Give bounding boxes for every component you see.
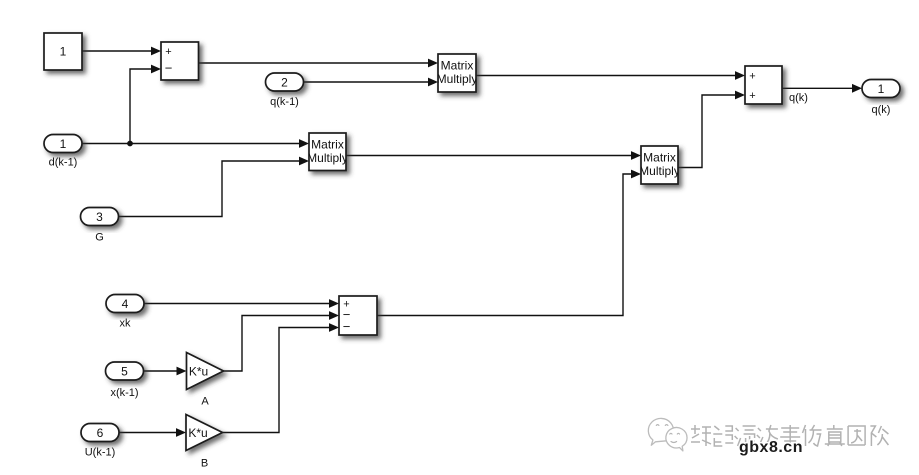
arrowhead into Sum2 in2 [735, 91, 745, 100]
arrowhead into MatrixMultiply2 in1 [299, 139, 309, 148]
arrowhead into MatrixMultiply1 in2 [428, 78, 438, 87]
wire In4 xk to Sum3 [144, 303, 330, 305]
svg-text:Multiply: Multiply [639, 164, 680, 178]
arrowhead into Sum3 in1 [329, 299, 339, 308]
svg-text:5: 5 [121, 364, 128, 378]
wire MatrixMultiply2 to MatrixMultiply3 [346, 155, 632, 157]
svg-text:−: − [165, 61, 173, 76]
watermark wechat logo [648, 418, 687, 450]
inport 1 d(k-1) [44, 135, 82, 169]
arrowhead into Sum3 in3 [329, 323, 339, 332]
svg-text:q(k): q(k) [789, 92, 808, 104]
wire branch d(k-1) to Sum1 minus [130, 69, 152, 144]
svg-text:+: + [165, 46, 171, 58]
wire Sum3 to MatrixMultiply3 [377, 174, 632, 316]
svg-text:K*u: K*u [189, 365, 208, 379]
arrowhead into Sum1 plus [151, 47, 161, 56]
svg-text:Multiply: Multiply [437, 72, 478, 86]
arrowhead into Gain A [177, 367, 187, 376]
svg-text:B: B [201, 458, 208, 470]
matrix multiply U2 [307, 133, 348, 171]
sum block Sum3 [339, 296, 377, 335]
arrowhead into MatrixMultiply3 in2 [631, 170, 641, 179]
inport 5 x(k-1) [106, 362, 144, 399]
inport 4 xk [106, 295, 144, 330]
svg-text:−: − [343, 319, 351, 334]
sum block Sum1 [161, 42, 199, 80]
svg-text:q(k): q(k) [872, 104, 891, 116]
inport 6 U(k-1) [81, 424, 119, 459]
constant block 1 [44, 33, 82, 70]
wire Gain A to Sum3 [224, 316, 331, 372]
sum block Sum2 [745, 66, 782, 104]
wire Constant1 to Sum1 [82, 50, 152, 52]
svg-text:G: G [95, 232, 104, 244]
gain B [186, 415, 223, 470]
inport 2 q(k-1) [266, 73, 304, 108]
svg-text:+: + [749, 71, 755, 83]
inport 3 G [81, 208, 119, 244]
svg-text:4: 4 [122, 297, 129, 311]
wire In1 d(k-1) to MatrixMultiply2 [82, 143, 300, 145]
gain A [187, 353, 224, 408]
wire MatrixMultiply1 to Sum2 [476, 75, 736, 77]
wire In3 G to MatrixMultiply2 [119, 161, 301, 217]
svg-text:x(k-1): x(k-1) [110, 387, 138, 399]
outport 1 q(k) [862, 80, 900, 117]
matrix multiply U3 [639, 146, 680, 184]
wire In6 U(k-1) to Gain B [119, 432, 177, 434]
wire Gain B to Sum3 [223, 328, 331, 433]
arrowhead into MatrixMultiply2 in2 [299, 157, 309, 166]
wire In5 x(k-1) to Gain A [144, 370, 178, 372]
arrowhead into MatrixMultiply1 in1 [428, 59, 438, 68]
svg-text:q(k-1): q(k-1) [270, 96, 299, 108]
wire In2 q(k-1) to MatrixMultiply1 [304, 81, 430, 83]
svg-text:Matrix: Matrix [311, 138, 344, 152]
svg-text:d(k-1): d(k-1) [49, 157, 78, 169]
svg-text:Matrix: Matrix [441, 59, 474, 73]
svg-text:Matrix: Matrix [643, 151, 676, 165]
svg-text:1: 1 [878, 82, 885, 96]
svg-text:gbx8.cn: gbx8.cn [739, 439, 803, 456]
svg-text:+: + [749, 90, 755, 102]
svg-text:6: 6 [97, 426, 104, 440]
svg-text:3: 3 [96, 210, 103, 224]
svg-text:Multiply: Multiply [307, 151, 348, 165]
wire MatrixMultiply3 to Sum2 [678, 95, 736, 168]
wire Sum1 to MatrixMultiply1 [199, 62, 430, 64]
arrowhead into Sum2 in1 [735, 71, 745, 80]
arrowhead into Sum3 in2 [329, 311, 339, 320]
svg-text:U(k-1): U(k-1) [85, 447, 116, 459]
wire Sum2 to Out1 q(k) [782, 87, 853, 89]
svg-text:xk: xk [120, 318, 132, 330]
svg-text:2: 2 [281, 75, 288, 89]
svg-text:1: 1 [60, 45, 67, 59]
svg-text:K*u: K*u [188, 426, 207, 440]
svg-text:A: A [201, 396, 209, 408]
arrowhead into MatrixMultiply3 in1 [631, 151, 641, 160]
junction dot on d(k-1) wire [127, 141, 133, 147]
svg-text:1: 1 [60, 137, 67, 151]
arrowhead into Gain B [176, 428, 186, 437]
arrowhead into Out1 [852, 84, 862, 93]
matrix multiply U1 [437, 54, 478, 92]
arrowhead into Sum1 minus [151, 65, 161, 74]
watermark chinese text 新能源汽车仿真团队 (approximated strokes) [691, 425, 890, 448]
